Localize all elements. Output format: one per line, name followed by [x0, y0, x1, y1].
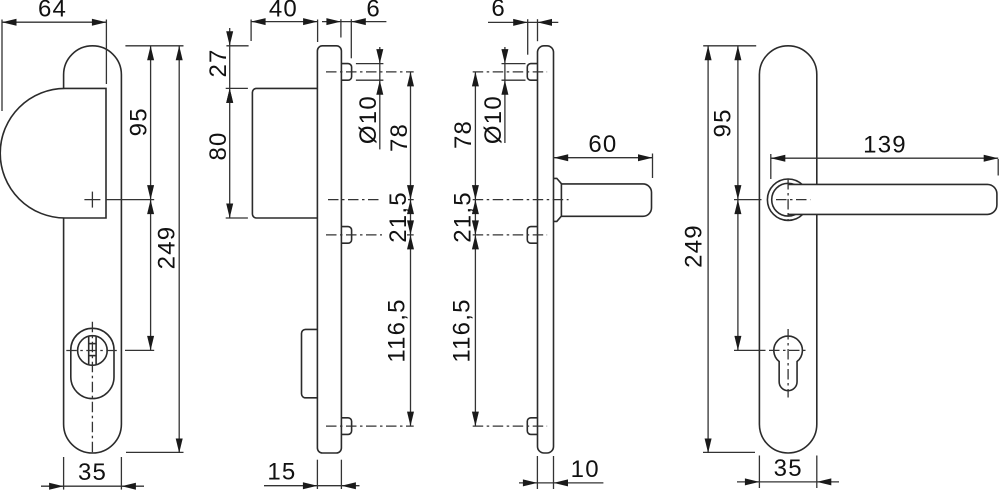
view 3 bottom boss centre line: [473, 425, 547, 427]
view 4 lever grip bar: [788, 184, 997, 214]
svg-text:64: 64: [38, 0, 67, 23]
view 1 knob (front view): [0, 88, 106, 218]
view 3 handle grip side profile: [561, 184, 651, 216]
dimension centre-to-cylinder view 4: [737, 200, 739, 351]
view 3 middle fixing boss: [527, 227, 537, 244]
view 2 cylinder housing: [302, 329, 318, 397]
view 3 handle centre line: [473, 199, 569, 201]
view 1 cylinder centre line horizontal: [66, 350, 118, 352]
view 3 top boss centre line: [473, 71, 547, 73]
dimension 116,5 view 2: [410, 235, 412, 426]
view 1 exterior backplate outline: [64, 46, 122, 453]
dimension 10 bottom view 3: [536, 456, 538, 489]
dimension 95 view 4: [703, 45, 756, 47]
dimension diameter 10 view 3: [502, 63, 526, 65]
view 3 middle boss centre line: [473, 234, 547, 236]
dimension diameter 10 view 2: [356, 63, 384, 65]
svg-text:6: 6: [491, 0, 506, 22]
dimension 15 bottom view 2: [316, 460, 318, 489]
dimension 249 view 4: [703, 451, 755, 453]
svg-text:78: 78: [450, 120, 477, 149]
svg-text:Ø10: Ø10: [355, 95, 382, 144]
view 2 top fixing boss: [341, 64, 351, 81]
view 4 interior backplate outline: [759, 46, 816, 453]
view 2 bottom fixing boss: [341, 418, 351, 435]
svg-text:249: 249: [154, 226, 181, 270]
view 2 backplate side outline: [317, 46, 341, 453]
svg-text:95: 95: [710, 108, 737, 137]
view 2 middle fixing boss: [341, 227, 351, 244]
dimension 35 bottom view 4: [758, 456, 760, 489]
svg-text:10: 10: [571, 456, 600, 483]
view 1 profile cylinder circle: [78, 336, 108, 366]
dimension 116,5 view 3: [474, 235, 476, 426]
svg-text:35: 35: [78, 459, 107, 486]
dimension centre-to-cylinder view 1: [150, 200, 152, 351]
svg-text:Ø10: Ø10: [480, 95, 507, 144]
dimension 27 view 2: [226, 45, 248, 47]
view 4 lever centre line horizontal: [734, 199, 762, 201]
view 1 handle centre cross mark: [84, 199, 100, 201]
svg-text:78: 78: [386, 123, 413, 152]
view 2 bottom boss centre line: [326, 425, 414, 427]
svg-text:40: 40: [269, 0, 298, 23]
dimension 60 view 3: [652, 154, 654, 179]
svg-text:27: 27: [205, 48, 232, 77]
view 3 backplate side outline: [538, 46, 554, 453]
view 1 cylinder opening oval: [71, 328, 114, 398]
svg-text:116,5: 116,5: [449, 298, 476, 362]
svg-text:139: 139: [863, 131, 907, 158]
svg-text:249: 249: [681, 224, 708, 268]
dimension 78 view 2: [410, 72, 412, 200]
svg-text:15: 15: [267, 458, 296, 485]
dimension 21,5 view 3: [474, 200, 476, 235]
view 2 knob side profile: [252, 88, 317, 218]
view 4 lever collar outer circle: [767, 179, 808, 220]
view 4 lever neck inner circle: [772, 183, 805, 216]
dimension 78 view 3: [474, 72, 476, 200]
view 3 bottom fixing boss: [527, 418, 537, 435]
view 2 middle boss centre line: [326, 234, 414, 236]
svg-text:35: 35: [774, 455, 803, 482]
dimension 95 view 1: [125, 45, 183, 47]
svg-text:80: 80: [205, 131, 232, 160]
dimension 249 view 1: [126, 451, 184, 453]
view 4 keyhole centre line vertical: [787, 329, 789, 398]
view 1 cylinder centre line vertical: [91, 322, 93, 455]
svg-text:21,5: 21,5: [385, 191, 412, 243]
view 2 top boss centre line: [326, 71, 414, 73]
dimension 139 view 4: [770, 154, 772, 179]
svg-text:95: 95: [125, 107, 152, 136]
dimension 6 top view 3: [527, 19, 529, 55]
dimension 80 view 2: [226, 217, 248, 219]
svg-text:21,5: 21,5: [450, 191, 477, 243]
svg-text:116,5: 116,5: [384, 298, 411, 362]
dimension 35 bottom view 1: [63, 457, 65, 490]
dimension 6 top view 2: [340, 19, 342, 37]
view 3 top fixing boss: [527, 64, 537, 81]
dimension 21,5 view 2: [382, 193, 407, 241]
dimension 64 top view 1: [1, 20, 3, 112]
view 4 profile cylinder keyhole: [774, 336, 803, 391]
svg-text:60: 60: [588, 131, 617, 158]
view 3 handle collar: [554, 178, 562, 221]
view 4 lever centre line vertical: [787, 179, 789, 221]
view 2 handle centre line: [328, 199, 414, 201]
view 1 cylinder keyway slot: [88, 336, 90, 365]
svg-text:6: 6: [366, 0, 381, 23]
dimension 40 top view 2: [250, 20, 252, 42]
view 4 keyhole centre line horizontal: [734, 349, 766, 351]
